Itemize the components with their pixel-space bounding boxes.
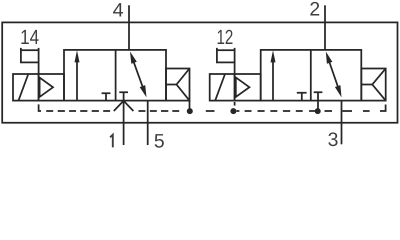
valve V1 air return end cap — [166, 69, 190, 101]
port 3 line — [341, 101, 343, 145]
valve V2 exhaust path arrow 2-3 (rest square, double headed) — [326, 52, 342, 98]
valve V1 body (two position squares) — [64, 50, 166, 101]
pilot line dashes segment A — [46, 110, 179, 112]
valve V1 pilot port 14 symbol — [21, 48, 39, 74]
valve V2 solenoid coil — [210, 74, 235, 101]
valve V1 end cap pilot connection line — [189, 101, 191, 112]
pilot stub below V2 solenoid — [234, 102, 236, 106]
valve V1 pilot amplifier triangle — [39, 74, 64, 101]
port 4 line — [128, 5, 130, 50]
enclosure (manifold boundary) — [2, 22, 397, 122]
junction dot V2 solenoid pilot — [230, 108, 236, 114]
valve V1 blocked port T (rest square) — [119, 92, 128, 100]
svg-text:14: 14 — [20, 26, 39, 49]
pilot line dashes segment B — [206, 110, 215, 112]
valve V1 solenoid coil — [13, 74, 39, 101]
junction dot supply tap — [315, 108, 321, 114]
pilot line dashes segment C — [237, 110, 315, 112]
valve V2 pilot port 12 symbol — [217, 48, 235, 74]
valve V1 exhaust path arrow 4-5 (rest square, double headed) — [130, 52, 147, 98]
valve V2 blocked port T (rest square) — [314, 92, 323, 100]
valve V2 body (two position squares) — [261, 50, 362, 101]
valve V2 blocked port T (left square) — [297, 93, 307, 101]
valve V1 blocked port T (left square) — [102, 93, 111, 100]
svg-text:2: 2 — [309, 0, 320, 21]
valve V2 flow arrow 1-2 (actuated square) — [271, 50, 276, 100]
port 1 line — [123, 101, 125, 145]
valve V1 supply arrowhead at port 1 (pilot tap V) — [114, 101, 134, 111]
valve V2 pilot amplifier triangle — [235, 74, 261, 101]
label 1 — [110, 135, 113, 148]
svg-text:5: 5 — [154, 131, 165, 153]
junction dot left end cap — [187, 108, 193, 114]
pilot line dashed corner to V2 end cap — [380, 105, 386, 112]
pilot line dashes segment D — [325, 110, 370, 112]
valve V2 air return end cap — [361, 69, 385, 101]
pilot line dashed corner below V1 solenoid — [39, 104, 41, 111]
port 5 line — [147, 101, 149, 145]
valve V2 supply tap line — [317, 101, 319, 112]
valve V1 flow arrow 1-4 (actuated square) — [75, 50, 80, 100]
svg-text:3: 3 — [328, 129, 339, 151]
port 2 line — [324, 5, 326, 50]
svg-text:4: 4 — [113, 0, 124, 22]
svg-text:12: 12 — [217, 26, 234, 49]
